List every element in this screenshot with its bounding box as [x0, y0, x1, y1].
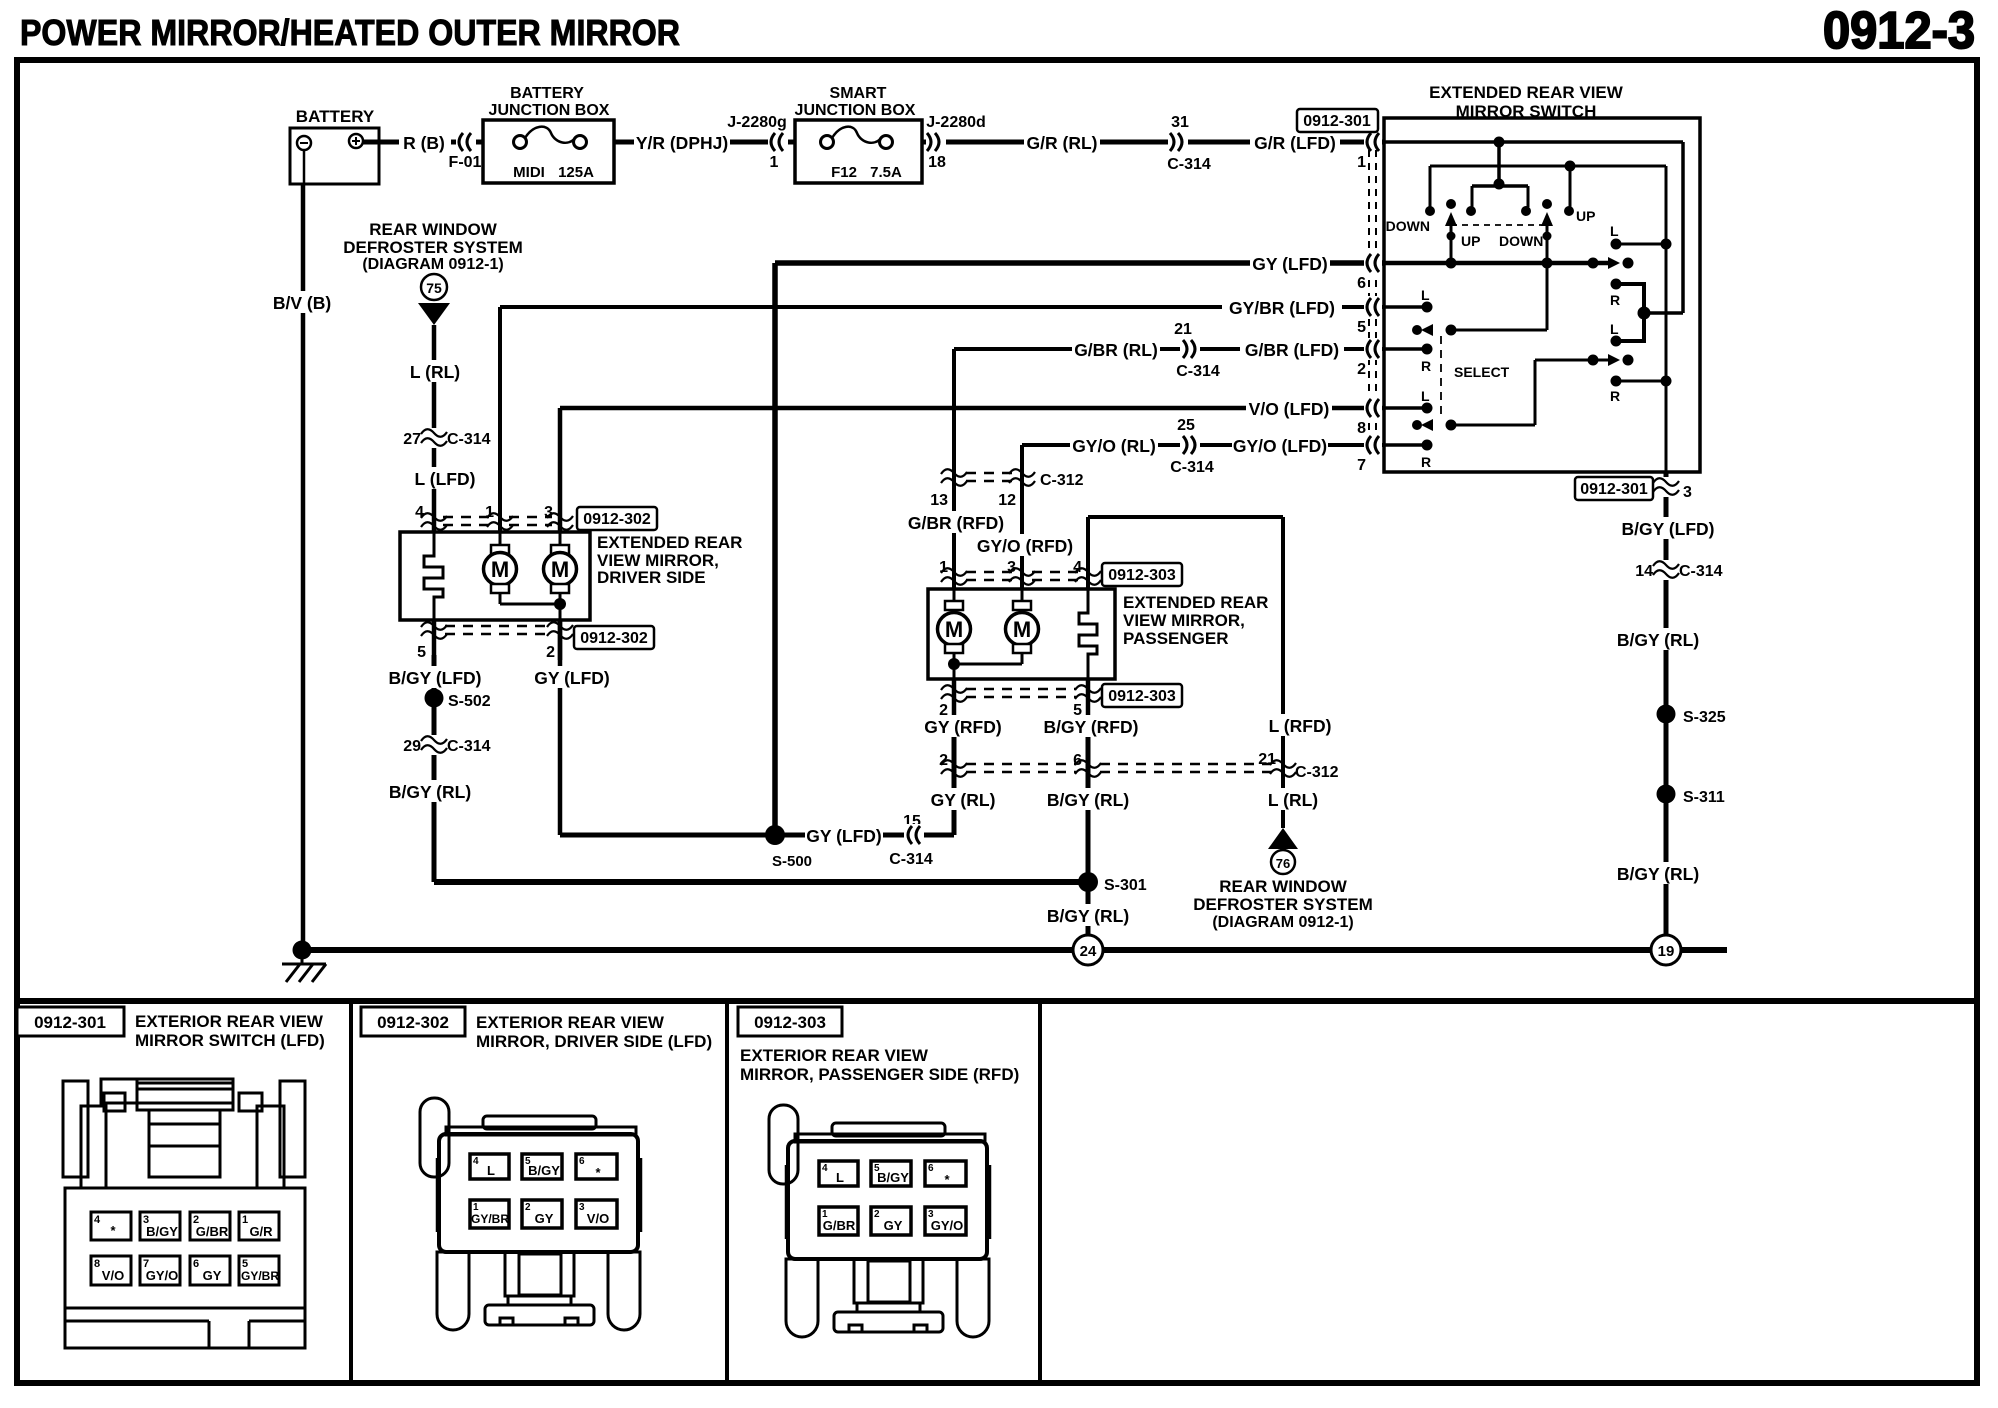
- svg-text:31: 31: [1171, 114, 1189, 131]
- wire label L (LFD): [414, 467, 476, 489]
- svg-text:1: 1: [242, 1214, 248, 1226]
- connector switch pin 7: [1357, 434, 1382, 474]
- svg-text:29: 29: [403, 738, 421, 755]
- wire label L (RFD): [1268, 714, 1332, 736]
- connector C-314 pin 14: [1635, 560, 1722, 580]
- svg-text:6: 6: [193, 1258, 199, 1270]
- svg-text:SELECT: SELECT: [1454, 364, 1510, 380]
- switch internal: pin7 contact: [1384, 440, 1433, 471]
- svg-text:6: 6: [579, 1156, 585, 1167]
- switch internal: right R contact bottom: [1610, 376, 1672, 405]
- svg-text:GY/BR: GY/BR: [241, 1269, 279, 1283]
- connector F-01: [449, 131, 482, 171]
- switch internal: UP wiper arrow: [1445, 212, 1457, 263]
- svg-text:(DIAGRAM 0912-1): (DIAGRAM 0912-1): [1212, 914, 1353, 931]
- connector switch pin 1: [1357, 131, 1382, 171]
- svg-text:L: L: [836, 1170, 844, 1185]
- svg-text:C-314: C-314: [1170, 459, 1214, 476]
- wire B/GY (RL) horizontal to S-301: [434, 879, 1088, 885]
- svg-text:L (LFD): L (LFD): [415, 469, 476, 489]
- svg-text:B/GY (RL): B/GY (RL): [1047, 790, 1129, 810]
- svg-text:0912-303: 0912-303: [754, 1013, 826, 1032]
- svg-text:7: 7: [1357, 457, 1366, 474]
- svg-text:21: 21: [1174, 321, 1192, 338]
- svg-text:2: 2: [546, 644, 555, 661]
- svg-text:24: 24: [1080, 943, 1097, 960]
- svg-text:F12: F12: [831, 164, 857, 181]
- svg-text:8: 8: [94, 1258, 100, 1270]
- svg-text:(DIAGRAM 0912-1): (DIAGRAM 0912-1): [362, 256, 503, 273]
- svg-text:0912-301: 0912-301: [1580, 481, 1648, 498]
- connector C-312 row lower (pins 2,6,21): [939, 751, 1339, 781]
- svg-text:3: 3: [544, 504, 553, 521]
- driver mirror label: [597, 533, 742, 587]
- svg-text:GY (RFD): GY (RFD): [924, 717, 1001, 737]
- svg-text:EXTENDED REAR VIEW: EXTENDED REAR VIEW: [1429, 83, 1624, 102]
- svg-text:L: L: [1421, 287, 1430, 303]
- svg-text:R: R: [1610, 388, 1620, 404]
- svg-text:GY/O (LFD): GY/O (LFD): [1233, 436, 1327, 456]
- svg-text:EXTERIOR REAR VIEW: EXTERIOR REAR VIEW: [740, 1046, 929, 1065]
- wire label GY/O (LFD): [1232, 433, 1328, 457]
- bottom panel divider 3: [1038, 1001, 1042, 1383]
- wire label G/R (RL): [1024, 130, 1100, 154]
- svg-text:L: L: [487, 1163, 495, 1178]
- wire label B/V (B): [272, 291, 332, 313]
- svg-text:B/GY: B/GY: [146, 1224, 178, 1239]
- connector switch pin 6: [1357, 252, 1382, 292]
- 0912-301 reference box (bottom): [1575, 477, 1653, 500]
- svg-text:M: M: [1013, 617, 1031, 642]
- wire label G/BR (RFD): [908, 511, 1004, 533]
- wire label B/GY (RL) right upper: [1614, 628, 1702, 650]
- switch internal: pin5 contact: [1384, 287, 1433, 313]
- svg-text:3: 3: [1007, 559, 1016, 576]
- extended rear view mirror passenger box: [928, 589, 1115, 679]
- panel 1 label box 0912-301: [17, 1007, 124, 1036]
- svg-text:REAR WINDOW: REAR WINDOW: [369, 220, 497, 239]
- svg-text:2: 2: [1357, 361, 1366, 378]
- ground reference circle 24: [1073, 935, 1103, 965]
- svg-text:DEFROSTER SYSTEM: DEFROSTER SYSTEM: [343, 238, 522, 257]
- connector C-314 pin 29: [403, 735, 490, 755]
- svg-text:13: 13: [930, 492, 948, 509]
- splice S-325: [1657, 705, 1726, 727]
- svg-text:C-312: C-312: [1295, 764, 1339, 781]
- svg-text:MIRROR, PASSENGER SIDE (RFD): MIRROR, PASSENGER SIDE (RFD): [740, 1065, 1019, 1084]
- passenger mirror motor M1: [938, 589, 971, 679]
- svg-text:0912-3: 0912-3: [1823, 2, 1975, 60]
- svg-text:GY (LFD): GY (LFD): [1252, 254, 1328, 274]
- svg-text:DOWN: DOWN: [1386, 218, 1430, 234]
- svg-text:2: 2: [874, 1209, 880, 1220]
- svg-text:G/R: G/R: [249, 1224, 273, 1239]
- driver mirror motor M1: [484, 532, 561, 604]
- panel 2 pin boxes: [470, 1154, 617, 1228]
- passenger mirror motor M2: [954, 589, 1039, 664]
- wire label B/GY (RL) passenger: [1044, 788, 1132, 810]
- wire label GY (LFD) bottom: [533, 666, 611, 688]
- svg-text:G/BR: G/BR: [823, 1218, 856, 1233]
- svg-text:B/GY (RL): B/GY (RL): [389, 782, 471, 802]
- wire B/GY (LFD) driver mirror pin 5: [432, 655, 437, 882]
- wire L (RFD) passenger mirror pin 4 corner: [1088, 517, 1283, 828]
- svg-text:EXTENDED REAR: EXTENDED REAR: [597, 533, 742, 552]
- svg-text:F-01: F-01: [449, 154, 482, 171]
- svg-text:B/GY (LFD): B/GY (LFD): [388, 668, 481, 688]
- wire GY/BR (LFD) switch pin 5 to driver mirror pin 1: [500, 307, 1384, 532]
- panel 2 label box 0912-302: [361, 1007, 465, 1036]
- splice S-311: [1657, 785, 1725, 807]
- svg-text:EXTERIOR REAR VIEW: EXTERIOR REAR VIEW: [135, 1012, 324, 1031]
- svg-text:V/O (LFD): V/O (LFD): [1249, 399, 1330, 419]
- svg-text:POWER MIRROR/HEATED OUTER MIRR: POWER MIRROR/HEATED OUTER MIRROR: [20, 12, 680, 53]
- switch internal: right R/L pair: [1610, 279, 1651, 347]
- connector C-314 pin 21: [1174, 321, 1220, 380]
- svg-text:EXTENDED REAR: EXTENDED REAR: [1123, 593, 1268, 612]
- ground node and chassis ground symbol: [282, 941, 326, 983]
- wire label G/R (LFD): [1250, 130, 1340, 154]
- wire label R (B): [399, 130, 451, 154]
- 0912-301 reference box (top): [1297, 109, 1378, 132]
- svg-text:0912-301: 0912-301: [1303, 113, 1371, 130]
- svg-text:C-314: C-314: [1679, 563, 1723, 580]
- wire label Y/R (DPHJ): [634, 130, 730, 154]
- svg-text:G/R (LFD): G/R (LFD): [1254, 133, 1336, 153]
- svg-text:27: 27: [403, 431, 421, 448]
- svg-text:PASSENGER: PASSENGER: [1123, 629, 1229, 648]
- svg-text:4: 4: [1073, 559, 1082, 576]
- svg-text:75: 75: [426, 280, 442, 296]
- svg-text:B/GY (RFD): B/GY (RFD): [1044, 717, 1139, 737]
- wiper linkage dashed: [1451, 224, 1547, 226]
- svg-text:L (RL): L (RL): [1268, 790, 1318, 810]
- svg-text:J-2280g: J-2280g: [727, 114, 787, 131]
- svg-text:S-311: S-311: [1683, 789, 1725, 806]
- driver mirror heater element: [424, 532, 443, 620]
- svg-text:JUNCTION BOX: JUNCTION BOX: [795, 102, 916, 119]
- svg-text:B/GY: B/GY: [877, 1170, 909, 1185]
- connector 0912-303 top row: [939, 559, 1101, 585]
- svg-text:R: R: [1421, 358, 1431, 374]
- svg-text:B/GY (RL): B/GY (RL): [1617, 630, 1699, 650]
- svg-text:C-312: C-312: [1040, 472, 1084, 489]
- svg-text:GY/O: GY/O: [931, 1218, 964, 1233]
- svg-text:MIDI: MIDI: [513, 164, 545, 181]
- wire label B/GY (RFD): [1043, 715, 1139, 737]
- wire label G/BR (LFD): [1240, 337, 1344, 361]
- svg-text:B/GY (LFD): B/GY (LFD): [1621, 519, 1714, 539]
- connector 0912-303 bottom row: [939, 679, 1101, 720]
- svg-text:V/O: V/O: [102, 1268, 124, 1283]
- svg-text:0912-302: 0912-302: [580, 630, 648, 647]
- svg-text:4: 4: [822, 1163, 828, 1174]
- bottom panel divider 1: [349, 1001, 353, 1383]
- wire label GY/O (RFD): [977, 534, 1073, 556]
- svg-text:MIRROR SWITCH (LFD): MIRROR SWITCH (LFD): [135, 1031, 325, 1050]
- wire label B/GY (RL) driver side: [388, 780, 472, 802]
- svg-text:GY/BR (LFD): GY/BR (LFD): [1229, 298, 1335, 318]
- svg-text:1: 1: [939, 559, 948, 576]
- switch internal: select wiper lower: [1412, 354, 1634, 431]
- svg-text:4: 4: [415, 504, 424, 521]
- svg-text:VIEW MIRROR,: VIEW MIRROR,: [1123, 611, 1245, 630]
- svg-text:GY: GY: [535, 1211, 554, 1226]
- svg-text:REAR WINDOW: REAR WINDOW: [1219, 877, 1347, 896]
- bottom panel divider 2: [725, 1001, 729, 1383]
- svg-text:0912-302: 0912-302: [377, 1013, 449, 1032]
- svg-text:5: 5: [1357, 319, 1366, 336]
- connector 0912-302 bottom row: [417, 620, 573, 661]
- connector C-314 pin 15: [889, 813, 933, 868]
- wire GY (LFD) driver mirror pin 2 to S-500: [560, 620, 954, 835]
- svg-text:S-500: S-500: [772, 853, 812, 870]
- wire label GY (RL): [928, 788, 998, 810]
- connector 0912-301 pin 3: [1653, 477, 1692, 501]
- svg-text:BATTERY: BATTERY: [296, 107, 375, 126]
- mirror switch U1 box: [1384, 118, 1700, 472]
- svg-text:GY/O (RL): GY/O (RL): [1072, 436, 1156, 456]
- wire B/GY switch pin 3 down right side: [1664, 472, 1669, 950]
- wire label GY/BR (LFD): [1222, 295, 1342, 319]
- wire label L (RL): [408, 360, 462, 382]
- wire label GY/O (RL): [1070, 433, 1158, 457]
- svg-text:6: 6: [928, 1163, 934, 1174]
- svg-text:JUNCTION BOX: JUNCTION BOX: [489, 102, 610, 119]
- connector switch pin 2: [1357, 338, 1382, 378]
- svg-text:1: 1: [770, 154, 779, 171]
- splice S-502: [425, 689, 491, 711]
- panel 3 label box 0912-303: [738, 1007, 842, 1036]
- svg-text:1: 1: [485, 504, 494, 521]
- svg-text:21: 21: [1258, 751, 1276, 768]
- svg-text:V/O: V/O: [587, 1211, 609, 1226]
- svg-text:M: M: [551, 557, 569, 582]
- wire B/GY down from passenger pin 5: [1086, 715, 1091, 882]
- wire label G/BR (RL): [1072, 337, 1160, 361]
- svg-text:12: 12: [998, 492, 1016, 509]
- wire label GY (RFD): [923, 715, 1003, 737]
- wire label B/GY (RL) right lower: [1614, 862, 1702, 884]
- svg-text:GY: GY: [884, 1218, 903, 1233]
- wire G/BR net switch pin 2 to passenger mirror pin 1: [954, 349, 1384, 589]
- splice S-500: [765, 825, 812, 870]
- svg-text:GY (RL): GY (RL): [931, 790, 996, 810]
- svg-text:G/BR (RL): G/BR (RL): [1074, 340, 1158, 360]
- svg-text:25: 25: [1177, 417, 1195, 434]
- svg-text:L: L: [1421, 388, 1430, 404]
- connector switch pin 5: [1357, 296, 1382, 336]
- switch internal: center stem and T-bar: [1472, 142, 1528, 207]
- extended rear view mirror driver side box: [400, 532, 590, 620]
- switch internal: right vertical to pin3: [1665, 166, 1668, 472]
- passenger mirror heater element: [1079, 589, 1097, 679]
- svg-text:0912-303: 0912-303: [1108, 567, 1176, 584]
- connector C-314 pin 25: [1170, 417, 1214, 476]
- battery junction box: [483, 120, 614, 183]
- connector J-2280d pin 18: [926, 114, 986, 171]
- svg-text:R (B): R (B): [403, 133, 445, 153]
- svg-text:125A: 125A: [558, 164, 594, 181]
- rear window defroster system reference 75: [343, 220, 522, 325]
- wire label B/GY (RL) at S-301: [1044, 904, 1132, 926]
- svg-text:MIRROR, DRIVER SIDE (LFD): MIRROR, DRIVER SIDE (LFD): [476, 1032, 712, 1051]
- svg-text:DRIVER SIDE: DRIVER SIDE: [597, 568, 706, 587]
- svg-text:S-325: S-325: [1683, 709, 1726, 726]
- switch internal: contact dot row: [1425, 199, 1574, 216]
- svg-text:3: 3: [1683, 484, 1692, 501]
- svg-text:R: R: [1421, 454, 1431, 470]
- splice S-301: [1078, 872, 1147, 894]
- driver mirror motor M2: [544, 532, 577, 620]
- wire label V/O (LFD): [1246, 396, 1332, 420]
- svg-text:B/GY: B/GY: [528, 1163, 560, 1178]
- connector C-314 pin 31: [1167, 114, 1211, 173]
- main diagram frame: [17, 60, 1977, 1001]
- svg-text:GY (LFD): GY (LFD): [534, 668, 610, 688]
- svg-text:C-314: C-314: [1176, 363, 1220, 380]
- svg-text:19: 19: [1658, 943, 1675, 960]
- svg-text:L (RFD): L (RFD): [1269, 716, 1332, 736]
- battery: [290, 128, 379, 184]
- wire battery plus to switch pin 1: [363, 140, 1384, 145]
- wire label L (RL): [1265, 788, 1321, 810]
- svg-text:C-314: C-314: [447, 431, 491, 448]
- svg-text:R: R: [1610, 292, 1620, 308]
- switch internal: right L contact top: [1610, 223, 1672, 250]
- svg-text:M: M: [491, 557, 509, 582]
- svg-text:J-2280d: J-2280d: [926, 114, 986, 131]
- svg-text:C-314: C-314: [1167, 156, 1211, 173]
- switch internal: pin2 contact: [1384, 344, 1433, 375]
- svg-text:0912-301: 0912-301: [34, 1013, 106, 1032]
- 0912-303 reference box (bottom): [1102, 684, 1182, 707]
- svg-text:GY/BR: GY/BR: [471, 1212, 509, 1226]
- connector J-2280g pin 1: [727, 114, 788, 171]
- panel 3 mirror connector drawing: [769, 1105, 990, 1337]
- svg-text:B/GY (RL): B/GY (RL): [1047, 906, 1129, 926]
- svg-text:B/GY (RL): B/GY (RL): [1617, 864, 1699, 884]
- svg-text:3: 3: [579, 1202, 585, 1213]
- svg-text:2: 2: [525, 1202, 531, 1213]
- rear window defroster system reference 76: [1193, 828, 1372, 931]
- svg-text:14: 14: [1635, 563, 1653, 580]
- svg-text:G/BR (RFD): G/BR (RFD): [908, 513, 1004, 533]
- svg-text:L: L: [1610, 223, 1619, 239]
- panel 3 pin boxes: [819, 1161, 966, 1235]
- svg-text:0912-303: 0912-303: [1108, 688, 1176, 705]
- svg-text:6: 6: [1357, 275, 1366, 292]
- wire B/V (B) battery negative to ground: [301, 184, 306, 950]
- svg-text:DEFROSTER SYSTEM: DEFROSTER SYSTEM: [1193, 895, 1372, 914]
- svg-text:EXTERIOR REAR VIEW: EXTERIOR REAR VIEW: [476, 1013, 665, 1032]
- svg-text:S-502: S-502: [448, 693, 491, 710]
- 0912-303 reference box (top): [1102, 563, 1182, 586]
- svg-text:GY/O (RFD): GY/O (RFD): [977, 536, 1073, 556]
- switch internal: pin1 top wire: [1384, 137, 1683, 314]
- svg-text:G/BR: G/BR: [196, 1224, 229, 1239]
- svg-text:GY (LFD): GY (LFD): [806, 826, 882, 846]
- panel 2 mirror connector drawing: [420, 1098, 641, 1330]
- 0912-302 reference box (bottom): [574, 626, 654, 649]
- svg-text:18: 18: [928, 154, 946, 171]
- svg-text:UP: UP: [1461, 233, 1480, 249]
- panel 1 pin boxes row 1: [91, 1212, 279, 1240]
- wire label B/GY (LFD): [388, 666, 481, 688]
- svg-text:5: 5: [417, 644, 426, 661]
- connector C-312 row upper (pins 13,12): [930, 469, 1083, 509]
- svg-text:L (RL): L (RL): [410, 362, 460, 382]
- select linkage dashed: [1440, 336, 1442, 420]
- wire GY (LFD) switch pin 6 to S-500: [775, 263, 1384, 835]
- switch internal: select wiper upper: [1412, 263, 1547, 336]
- svg-text:UP: UP: [1576, 208, 1595, 224]
- wire GY/O net switch pin 7 to passenger mirror pin 3: [1022, 445, 1384, 589]
- connector C-314 pin 27: [403, 428, 490, 448]
- connector 0912-302 top row: [415, 504, 573, 530]
- switch connector dashed lines: [1368, 150, 1370, 437]
- wire V/O (LFD) switch pin 8 to driver mirror pin 3: [560, 408, 1384, 532]
- switch internal: DOWN wiper arrow: [1541, 212, 1553, 263]
- wire label B/GY (LFD) right: [1621, 517, 1714, 539]
- svg-text:C-314: C-314: [447, 738, 491, 755]
- svg-text:1: 1: [1357, 154, 1366, 171]
- passenger mirror label: [1123, 593, 1268, 648]
- svg-text:DOWN: DOWN: [1499, 233, 1543, 249]
- panel 1 switch connector drawing: [63, 1079, 305, 1348]
- svg-text:7.5A: 7.5A: [870, 164, 902, 181]
- svg-text:2: 2: [939, 752, 948, 769]
- wire B/GY (RL) S-301 to ground bus: [1086, 882, 1091, 950]
- svg-text:6: 6: [1073, 752, 1082, 769]
- wire L (RL)/L (LFD) to driver mirror pin 4: [432, 325, 437, 532]
- svg-text:GY/O: GY/O: [146, 1268, 179, 1283]
- svg-text:L: L: [1610, 321, 1619, 337]
- switch internal: upper second wire: [1430, 161, 1666, 208]
- svg-text:M: M: [945, 617, 963, 642]
- connector switch pin 8: [1357, 397, 1382, 437]
- svg-text:G/R (RL): G/R (RL): [1027, 133, 1098, 153]
- smart junction box: [795, 120, 922, 183]
- panel 1 pin boxes row 2: [91, 1256, 279, 1285]
- ground bus wire: [302, 947, 1727, 953]
- bottom section frame: [17, 1001, 1977, 1383]
- svg-text:76: 76: [1276, 856, 1290, 871]
- svg-text:0912-302: 0912-302: [583, 511, 651, 528]
- ground reference circle 19: [1651, 935, 1681, 965]
- wire GY (RFD)/GY (RL) passenger pin 2 down: [952, 715, 957, 835]
- svg-text:S-301: S-301: [1104, 877, 1147, 894]
- svg-text:C-314: C-314: [889, 851, 933, 868]
- svg-text:4: 4: [94, 1214, 101, 1226]
- 0912-302 reference box (top): [577, 507, 657, 530]
- wire label GY (LFD) at S-500: [805, 823, 883, 847]
- wire label GY (LFD): [1250, 251, 1330, 275]
- svg-text:BATTERY: BATTERY: [510, 85, 584, 102]
- svg-text:GY: GY: [203, 1268, 222, 1283]
- switch internal: pin8 contact: [1384, 388, 1433, 414]
- svg-text:4: 4: [473, 1156, 479, 1167]
- svg-text:G/BR (LFD): G/BR (LFD): [1245, 340, 1339, 360]
- switch internal: pin6 bus wire: [1384, 257, 1634, 269]
- svg-text:SMART: SMART: [830, 85, 887, 102]
- svg-text:B/V (B): B/V (B): [273, 293, 331, 313]
- svg-text:Y/R (DPHJ): Y/R (DPHJ): [636, 133, 728, 153]
